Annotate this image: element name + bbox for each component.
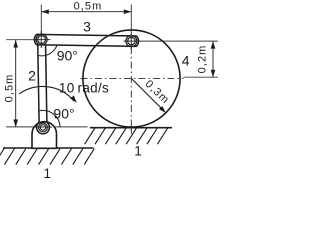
link 2 shaft xyxy=(38,41,39,122)
dimension line 0,5m left xyxy=(15,40,17,127)
svg-text:0,5m: 0,5m xyxy=(74,0,103,12)
pin A circles xyxy=(36,34,47,45)
extension line top-right (from pin B up) xyxy=(130,5,132,50)
ground hatching under disc xyxy=(85,128,168,144)
pin O circles xyxy=(39,123,48,132)
svg-text:0,2m: 0,2m xyxy=(197,45,209,74)
centerline horizontal through disc centre (dash-dot) xyxy=(81,77,184,79)
svg-text:0,3m: 0,3m xyxy=(143,78,172,107)
svg-text:0,5m: 0,5m xyxy=(3,74,15,103)
ground line under disc xyxy=(90,127,172,129)
extension line bottom (through pin O, long) xyxy=(6,126,88,128)
extension line top-left (from pin A up) xyxy=(40,5,42,48)
pin B crosshair xyxy=(124,40,141,42)
svg-text:90°: 90° xyxy=(53,106,74,122)
extension through pin O redrawn xyxy=(35,126,52,128)
pin B circles xyxy=(126,36,137,47)
svg-text:1: 1 xyxy=(134,144,142,159)
svg-text:3: 3 xyxy=(83,19,91,35)
dimension line 0,5m top xyxy=(41,11,131,13)
pin A crosshair xyxy=(33,39,50,41)
svg-text:1: 1 xyxy=(43,166,51,180)
link 3 bar (stadium with bulb caps) xyxy=(34,34,138,46)
radius line 0,3m with arrow xyxy=(132,79,165,112)
extension line left top (through pin A) xyxy=(6,39,50,41)
ground line left support xyxy=(3,147,94,149)
angle arc 90 deg at pin O xyxy=(39,110,60,127)
disc 4 xyxy=(83,30,180,127)
svg-text:90°: 90° xyxy=(57,48,78,64)
angle arc 90 deg at pin A xyxy=(38,40,58,56)
support block at O xyxy=(32,122,57,149)
angular velocity arc 10 rad/s xyxy=(19,86,74,101)
extension line right (through pin B, to 0,2m dim) xyxy=(124,40,218,42)
ground hatching left support xyxy=(0,149,94,165)
centerline vertical through pin B and disc (dash-dot) xyxy=(130,47,132,134)
svg-text:4: 4 xyxy=(182,52,190,68)
dimension line 0,2m right xyxy=(212,41,214,77)
extension line right lower (disc centre level) xyxy=(184,76,219,78)
link 2 bottom eye (U arc) xyxy=(37,122,50,133)
svg-text:2: 2 xyxy=(28,68,36,84)
svg-text:10 rad/s: 10 rad/s xyxy=(59,81,109,96)
